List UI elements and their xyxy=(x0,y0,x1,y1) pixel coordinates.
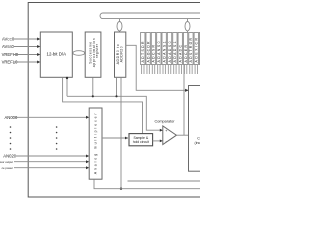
svg-text:AN020: AN020 xyxy=(3,154,16,159)
svg-text:ADSTRGR: ADSTRGR xyxy=(189,37,193,62)
svg-text:nsor output: nsor output xyxy=(0,160,13,164)
svg-text:ADCSR: ADCSR xyxy=(152,44,156,62)
svg-text:AVCC0: AVCC0 xyxy=(2,37,15,42)
svg-text:Comparator: Comparator xyxy=(154,120,175,124)
svg-text:ADCER: ADCER xyxy=(184,44,188,62)
svg-text:hold circuit: hold circuit xyxy=(133,140,149,144)
svg-text:Sample &: Sample & xyxy=(133,136,148,140)
svg-text:AVSS0: AVSS0 xyxy=(2,44,15,49)
svg-text:Analog multiplexer: Analog multiplexer xyxy=(94,112,98,174)
svg-text:ce power: ce power xyxy=(2,166,13,170)
svg-text:ADOCDR: ADOCDR xyxy=(146,41,150,63)
svg-text:Control circuit: Control circuit xyxy=(197,136,200,140)
svg-text:ADADC: ADADC xyxy=(178,44,182,62)
svg-text:register: register xyxy=(95,43,99,58)
svg-text:ADDR20: ADDR20 xyxy=(119,46,123,62)
svg-text:(including sample: (including sample xyxy=(195,141,201,145)
svg-text:12-bit D/A: 12-bit D/A xyxy=(47,51,67,56)
svg-text:ADTSDR: ADTSDR xyxy=(141,41,145,63)
svg-text:ADEXICR: ADEXICR xyxy=(195,37,199,62)
